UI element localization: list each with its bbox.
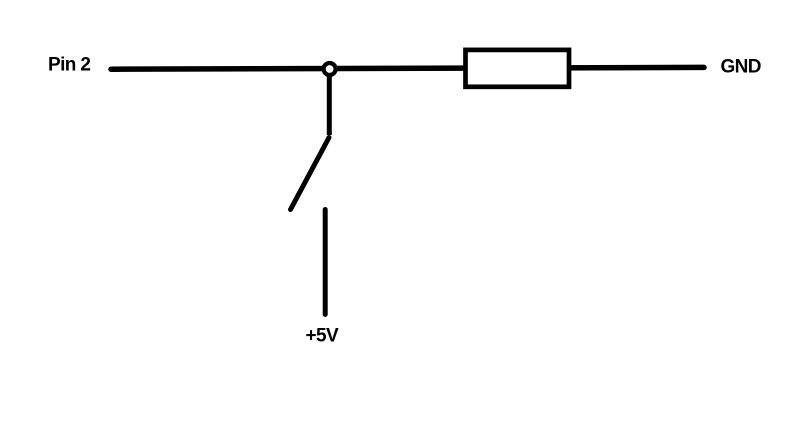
wire: vertical segment to +5V supply	[323, 210, 328, 315]
switch S1: fixed stub from node A	[327, 76, 332, 135]
resistor R1 (rectangle body)	[466, 50, 570, 87]
switch S1: open throw arm (diagonal blade)	[291, 138, 330, 210]
junction node A (open circle at wire/switch tap)	[324, 63, 336, 75]
svg-text:GND: GND	[721, 56, 761, 77]
svg-text:+5V: +5V	[306, 325, 339, 346]
wire: horizontal net from Pin 2 to GND	[111, 67, 704, 69]
svg-text:Pin 2: Pin 2	[48, 55, 90, 76]
